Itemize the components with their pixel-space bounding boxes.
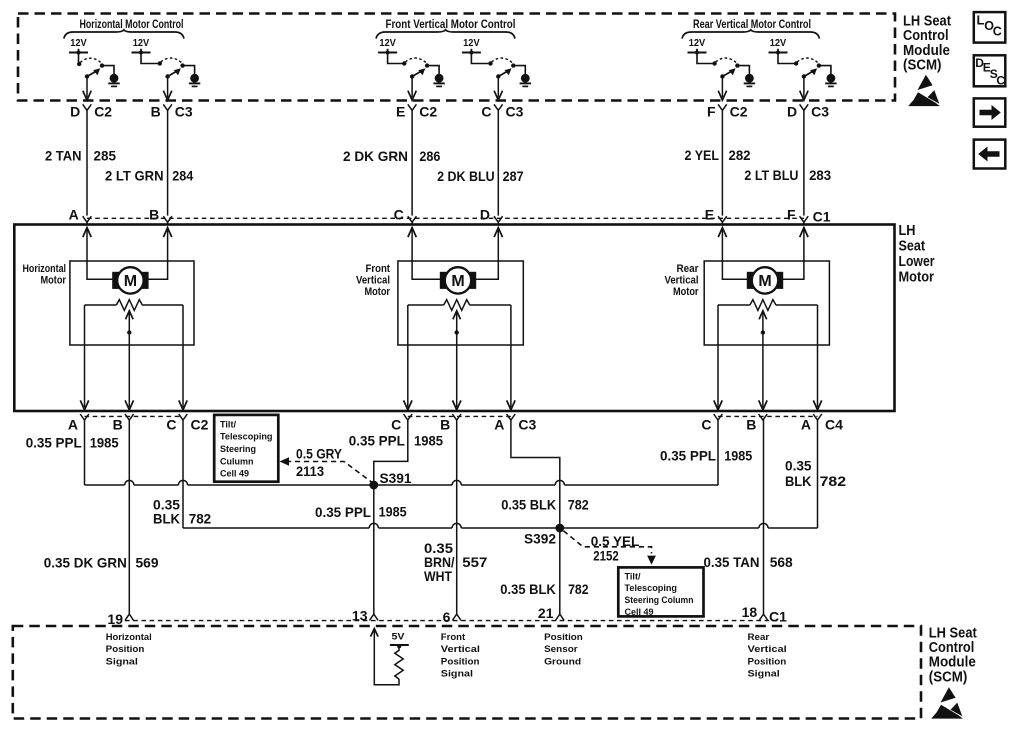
svg-text:Cell 49: Cell 49 (625, 607, 654, 618)
svg-text:Position: Position (748, 656, 787, 667)
svg-text:C1: C1 (813, 209, 831, 225)
svg-text:Signal: Signal (748, 669, 780, 680)
svg-text:Steering: Steering (220, 444, 256, 455)
svg-text:Telescoping: Telescoping (220, 432, 273, 443)
svg-text:D: D (787, 103, 797, 119)
svg-text:2 YEL: 2 YEL (685, 147, 720, 163)
svg-text:Front Vertical Motor Control: Front Vertical Motor Control (386, 17, 516, 31)
svg-text:1985: 1985 (379, 504, 407, 520)
svg-text:782: 782 (189, 511, 212, 527)
svg-text:C1: C1 (769, 609, 787, 625)
svg-text:0.35 DK GRN: 0.35 DK GRN (44, 555, 127, 571)
svg-text:1985: 1985 (724, 447, 752, 463)
svg-text:557: 557 (462, 554, 487, 570)
svg-text:(SCM): (SCM) (903, 57, 942, 73)
svg-text:Position: Position (106, 644, 145, 655)
svg-text:Front: Front (441, 632, 466, 643)
svg-text:12V: 12V (689, 37, 706, 49)
svg-text:BLK: BLK (785, 473, 812, 489)
svg-text:Motor: Motor (673, 286, 699, 298)
svg-text:(SCM): (SCM) (929, 669, 968, 685)
svg-text:21: 21 (538, 605, 554, 621)
svg-text:S392: S392 (524, 530, 556, 546)
svg-text:Signal: Signal (106, 656, 138, 667)
svg-text:B: B (113, 416, 123, 432)
svg-text:782: 782 (820, 473, 847, 489)
svg-text:0.35 TAN: 0.35 TAN (704, 554, 760, 570)
svg-text:Rear: Rear (748, 632, 770, 643)
svg-text:282: 282 (729, 147, 751, 163)
svg-text:286: 286 (419, 148, 440, 164)
svg-text:B: B (151, 103, 161, 119)
svg-text:Front: Front (366, 263, 391, 275)
svg-text:Cell 49: Cell 49 (220, 469, 249, 480)
svg-text:5V: 5V (392, 632, 406, 643)
svg-text:0.35 PPL: 0.35 PPL (349, 433, 405, 449)
svg-text:2 LT GRN: 2 LT GRN (105, 168, 164, 184)
svg-text:M: M (758, 273, 771, 290)
svg-text:Position: Position (441, 656, 480, 667)
svg-text:C3: C3 (811, 104, 829, 120)
svg-text:B: B (440, 416, 450, 432)
svg-text:WHT: WHT (424, 568, 452, 584)
svg-text:L: L (977, 12, 985, 27)
svg-text:0.35 BLK: 0.35 BLK (501, 497, 556, 513)
svg-text:0.35 PPL: 0.35 PPL (26, 434, 82, 450)
svg-text:Culumn: Culumn (220, 456, 254, 467)
svg-text:12V: 12V (379, 37, 396, 49)
svg-text:Motor: Motor (41, 275, 67, 287)
svg-text:LH Seat: LH Seat (929, 625, 977, 641)
svg-text:Seat: Seat (899, 238, 926, 254)
svg-text:C2: C2 (419, 104, 437, 120)
svg-text:S391: S391 (380, 470, 412, 486)
svg-text:19: 19 (107, 611, 123, 627)
svg-text:569: 569 (136, 555, 159, 571)
svg-text:F: F (707, 103, 716, 119)
svg-text:0.35 PPL: 0.35 PPL (660, 447, 716, 463)
svg-text:2 DK GRN: 2 DK GRN (343, 148, 408, 164)
svg-text:12V: 12V (70, 37, 87, 49)
svg-text:Rear: Rear (677, 263, 700, 275)
svg-text:Horizontal: Horizontal (106, 632, 152, 643)
svg-text:283: 283 (809, 167, 831, 183)
svg-text:782: 782 (568, 581, 589, 597)
svg-text:782: 782 (568, 497, 589, 513)
svg-text:F: F (787, 206, 796, 222)
svg-text:Horizontal: Horizontal (23, 263, 67, 275)
svg-text:M: M (124, 273, 137, 290)
svg-text:Telescoping: Telescoping (625, 583, 678, 594)
svg-text:D: D (480, 206, 490, 222)
svg-text:B: B (746, 416, 756, 432)
svg-text:C: C (166, 416, 176, 432)
svg-text:2152: 2152 (593, 548, 619, 564)
svg-text:0.35 PPL: 0.35 PPL (315, 504, 371, 520)
svg-text:Rear Vertical Motor Control: Rear Vertical Motor Control (693, 17, 811, 31)
svg-text:0.5 GRY: 0.5 GRY (296, 445, 343, 461)
svg-text:2 DK BLU: 2 DK BLU (437, 168, 495, 184)
svg-text:A: A (494, 416, 504, 432)
svg-text:285: 285 (94, 148, 117, 164)
svg-text:C: C (481, 103, 491, 119)
svg-text:B: B (149, 206, 159, 222)
svg-text:0.35: 0.35 (785, 458, 812, 474)
svg-text:C3: C3 (506, 104, 524, 120)
svg-text:A: A (68, 416, 78, 432)
svg-text:C: C (391, 416, 401, 432)
svg-text:18: 18 (742, 604, 758, 620)
svg-text:Lower: Lower (899, 254, 935, 270)
svg-text:C3: C3 (518, 416, 536, 432)
svg-text:Tilt/: Tilt/ (220, 419, 236, 430)
svg-text:2 TAN: 2 TAN (45, 148, 82, 164)
svg-text:12V: 12V (463, 37, 480, 49)
svg-text:Module: Module (903, 43, 950, 59)
svg-text:Position: Position (544, 632, 583, 643)
svg-text:Vertical: Vertical (441, 644, 480, 655)
svg-text:Control: Control (903, 28, 949, 44)
svg-text:0.35 BLK: 0.35 BLK (500, 581, 556, 597)
svg-text:Vertical: Vertical (356, 275, 390, 287)
svg-text:C2: C2 (730, 104, 748, 120)
svg-text:2 LT BLU: 2 LT BLU (744, 167, 798, 183)
svg-text:13: 13 (352, 608, 368, 624)
svg-text:C: C (993, 25, 1002, 39)
svg-text:D: D (70, 103, 80, 119)
svg-text:Motor: Motor (899, 269, 935, 285)
svg-text:1985: 1985 (90, 434, 119, 450)
svg-text:A: A (69, 206, 79, 222)
svg-text:BLK: BLK (153, 511, 180, 527)
svg-text:568: 568 (770, 554, 793, 570)
svg-text:287: 287 (503, 168, 524, 184)
svg-text:Horizontal Motor Control: Horizontal Motor Control (80, 17, 184, 31)
svg-text:Ground: Ground (544, 656, 581, 667)
svg-text:12V: 12V (133, 37, 150, 49)
svg-text:C4: C4 (825, 416, 843, 432)
svg-text:12V: 12V (770, 37, 787, 49)
svg-text:6: 6 (443, 609, 451, 625)
svg-text:284: 284 (172, 168, 193, 184)
svg-text:C: C (701, 416, 711, 432)
svg-text:Vertical: Vertical (748, 644, 787, 655)
svg-text:Motor: Motor (365, 286, 391, 298)
svg-text:Control: Control (929, 640, 975, 656)
svg-text:2113: 2113 (296, 463, 324, 479)
svg-text:A: A (801, 416, 811, 432)
svg-text:Module: Module (929, 655, 976, 671)
svg-text:0.5 YEL: 0.5 YEL (591, 533, 640, 549)
svg-text:LH Seat: LH Seat (903, 14, 951, 30)
svg-text:Vertical: Vertical (665, 275, 699, 287)
svg-text:Tilt/: Tilt/ (625, 571, 641, 582)
svg-text:E: E (396, 103, 405, 119)
svg-text:C: C (996, 74, 1005, 88)
svg-text:Steering Column: Steering Column (625, 595, 694, 606)
svg-text:C2: C2 (94, 104, 112, 120)
svg-text:C3: C3 (175, 104, 193, 120)
svg-text:1985: 1985 (414, 433, 443, 449)
svg-text:C2: C2 (191, 416, 209, 432)
svg-text:M: M (451, 273, 464, 290)
svg-text:Sensor: Sensor (544, 644, 578, 655)
svg-text:Signal: Signal (441, 669, 473, 680)
svg-text:C: C (394, 206, 404, 222)
svg-text:LH: LH (899, 223, 916, 239)
svg-text:E: E (705, 206, 714, 222)
